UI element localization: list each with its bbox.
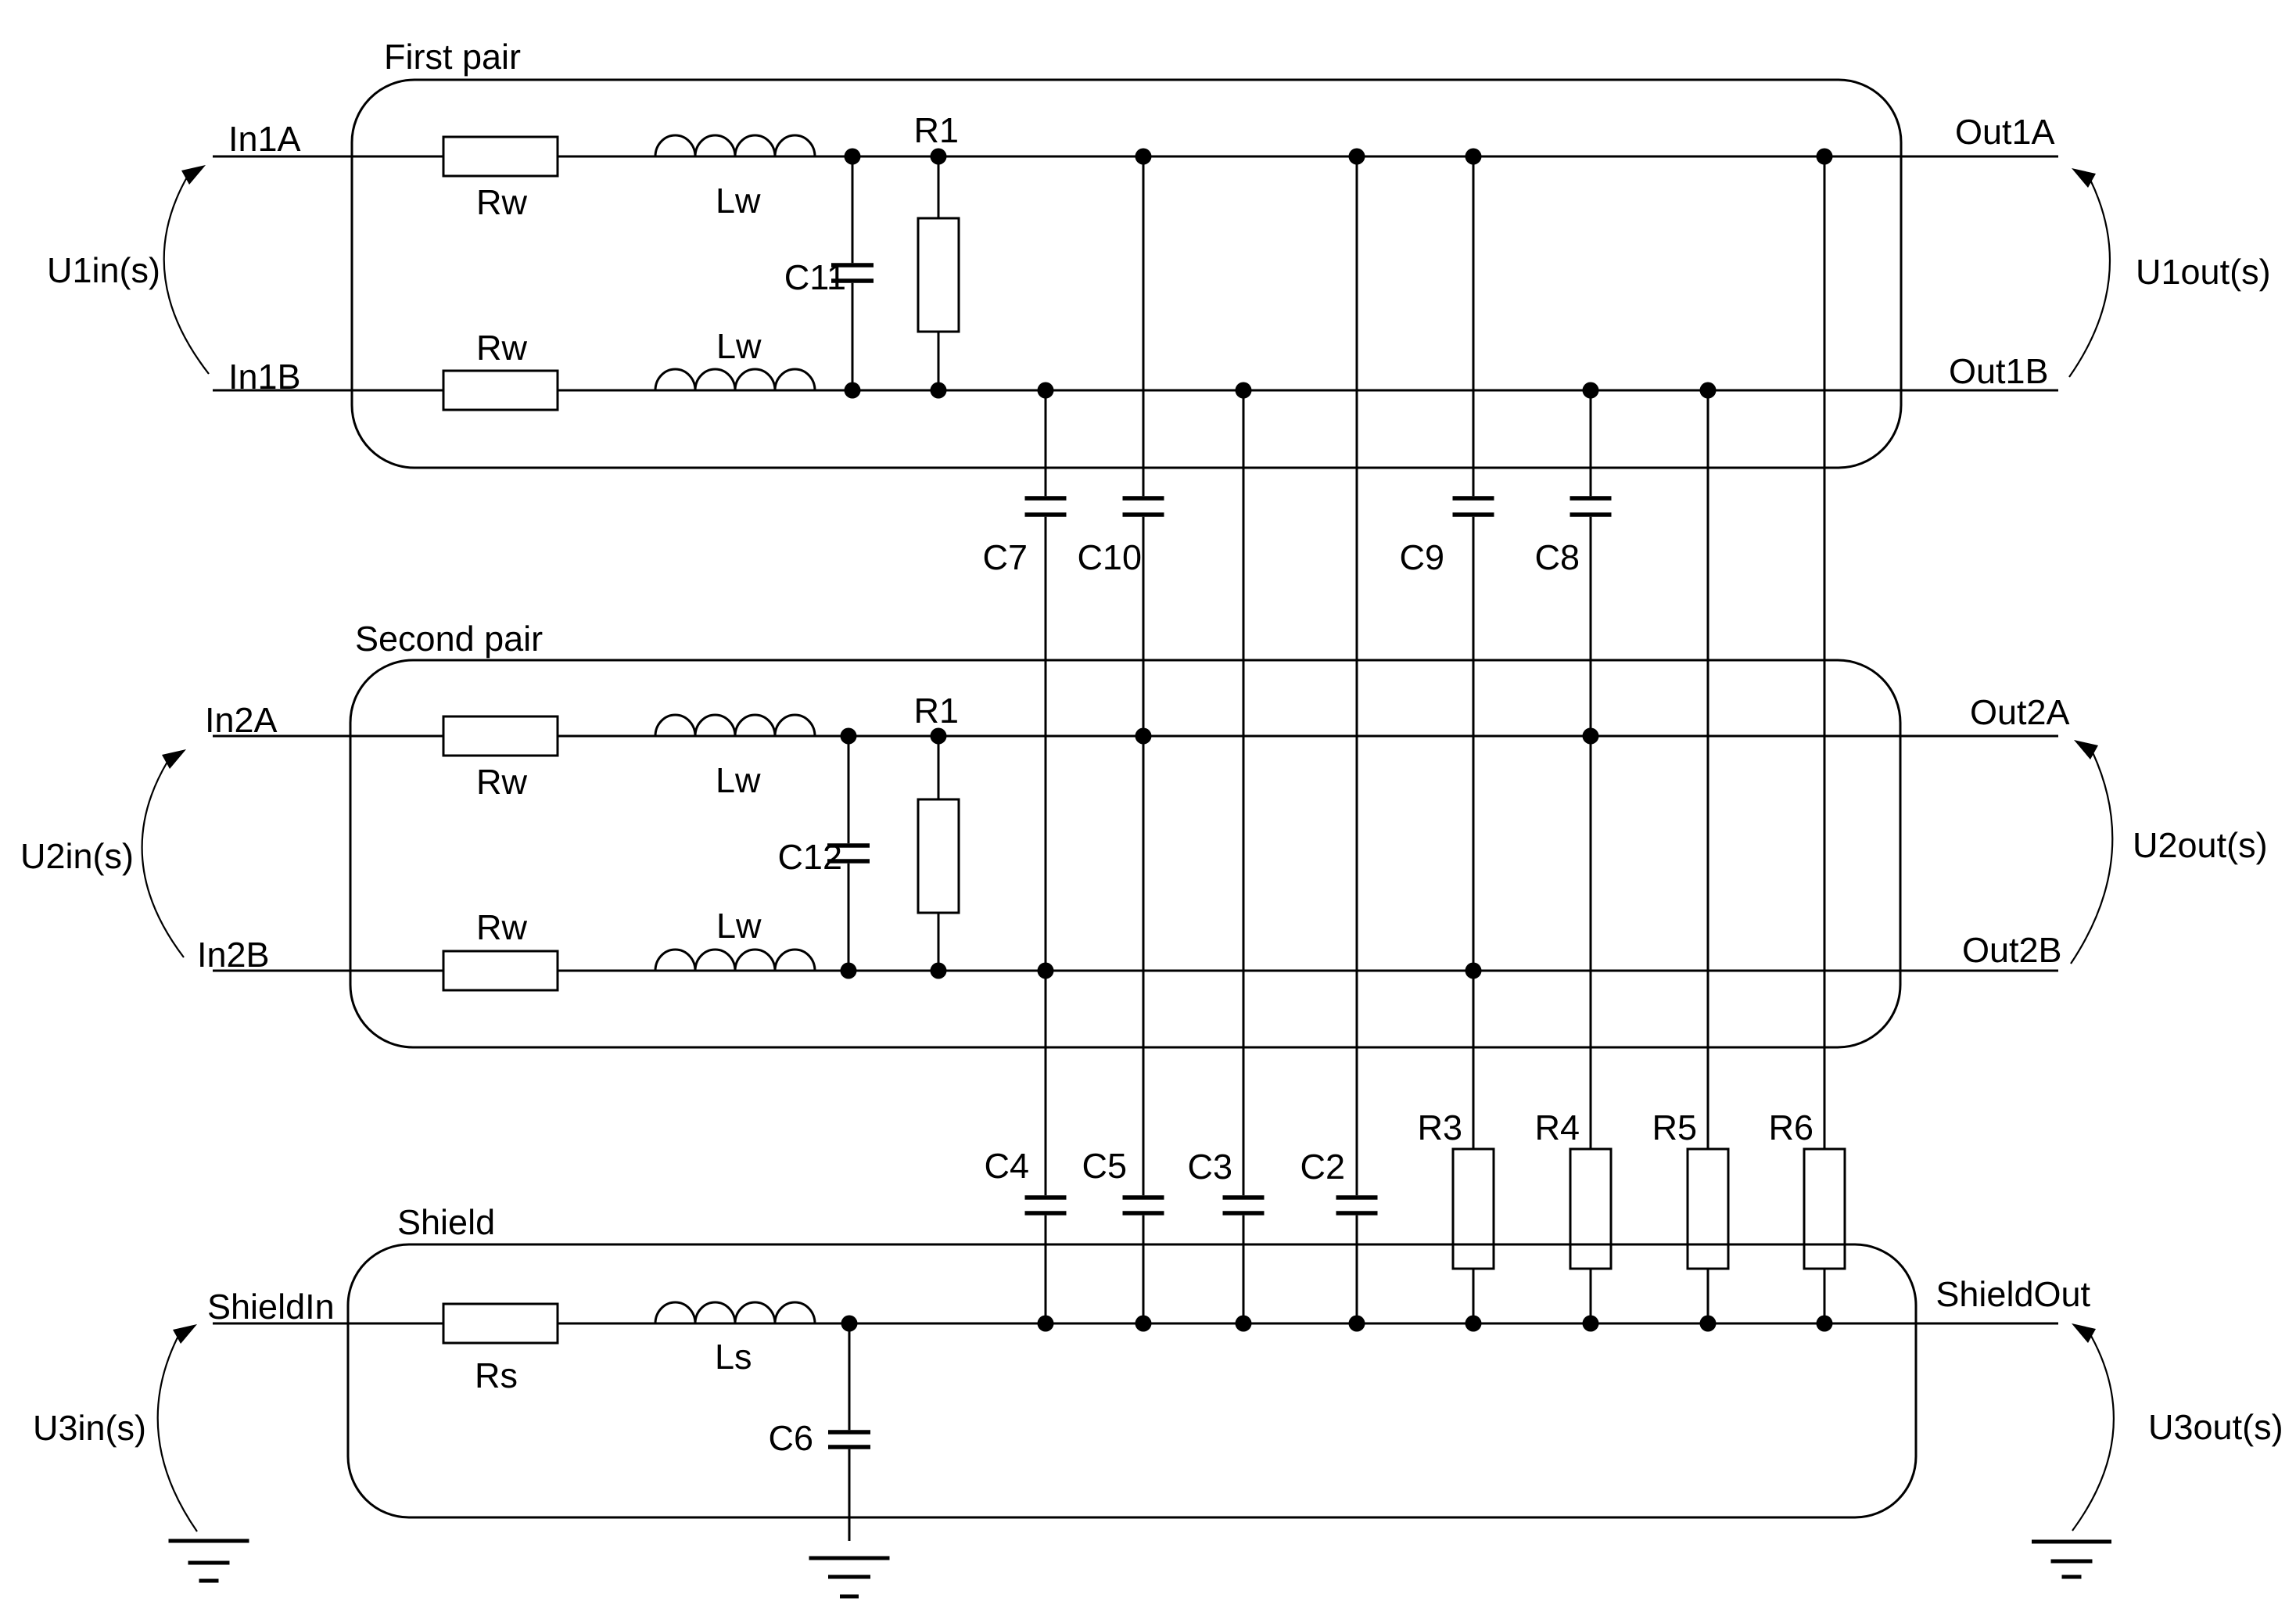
wire C7 to Out2B [1045, 517, 1047, 971]
wire coupling line x=2034 upper segment [1590, 390, 1592, 496]
junction node on shield wire at x=1462 [1135, 1316, 1152, 1332]
resistor R1 (second pair) [913, 691, 959, 971]
junction node on Out1A wire at x=1090 [845, 149, 861, 165]
svg-text:R3: R3 [1417, 1108, 1462, 1147]
voltage arrow U3out(s) [2072, 1323, 2283, 1531]
inductor Lw (wire y=200) [655, 134, 815, 221]
svg-text:C8: C8 [1534, 537, 1580, 577]
svg-text:C10: C10 [1077, 537, 1142, 577]
svg-text:U2out(s): U2out(s) [2133, 825, 2268, 865]
node label In2A [205, 700, 278, 740]
junction node on Out1B wire at x=2184 [1700, 382, 1717, 399]
junction node on Out1B wire at x=2034 [1583, 382, 1599, 399]
ground (right, U3out reference) [2032, 1542, 2111, 1577]
node label Out1B [1949, 351, 2049, 391]
cable box "Second pair" [350, 660, 1900, 1047]
node label Out1A [1955, 112, 2055, 152]
junction node on shield wire at x=1086 [841, 1316, 858, 1332]
capacitor C12 [777, 736, 870, 971]
junction node on shield wire at x=1735 [1349, 1316, 1365, 1332]
svg-text:Lw: Lw [716, 906, 762, 946]
resistor R4 [1534, 1108, 1611, 1269]
junction node on Out2B wire at x=1337 [1038, 963, 1054, 979]
svg-text:Lw: Lw [716, 326, 762, 366]
wire R4 to shield [1590, 1269, 1592, 1323]
capacitor C3 [1187, 1147, 1264, 1213]
label Second pair [355, 619, 543, 659]
wire C3 to shield [1243, 1215, 1245, 1323]
svg-text:C5: C5 [1082, 1146, 1127, 1186]
junction node on shield wire at x=1337 [1038, 1316, 1054, 1332]
junction node on shield wire at x=1884 [1465, 1316, 1482, 1332]
wire coupling line x=2333 [1824, 156, 1826, 1149]
wire ShieldIn-ShieldOut [213, 1323, 2058, 1325]
svg-text:C2: C2 [1300, 1147, 1345, 1187]
wire coupling line x=1337 upper segment [1045, 390, 1047, 496]
junction node on shield wire at x=2034 [1583, 1316, 1599, 1332]
resistor R1 (first pair) [913, 110, 959, 390]
node label In1A [228, 119, 301, 159]
inductor Lw (wire y=1241) [655, 906, 815, 971]
node label Out2B [1962, 930, 2062, 970]
capacitor C4 [984, 1146, 1066, 1213]
capacitor C5 [1082, 1146, 1164, 1213]
wire C5 to shield [1143, 1215, 1145, 1323]
svg-text:In2B: In2B [197, 935, 270, 975]
cable box "First pair" [352, 80, 1901, 468]
node label In2B [197, 935, 270, 975]
svg-text:U3in(s): U3in(s) [33, 1408, 146, 1448]
svg-text:Rw: Rw [476, 182, 527, 222]
svg-text:In1B: In1B [228, 357, 301, 397]
svg-text:R6: R6 [1768, 1108, 1813, 1147]
junction node on Out1B wire at x=1337 [1038, 382, 1054, 399]
svg-text:R5: R5 [1652, 1108, 1697, 1147]
resistor Rw (wire y=941) [443, 716, 558, 802]
svg-text:C12: C12 [777, 837, 842, 877]
resistor R3 [1417, 1108, 1494, 1269]
svg-text:Out2A: Out2A [1970, 692, 2070, 732]
node label ShieldIn [207, 1287, 335, 1327]
wire In2B-Out2B [213, 970, 2058, 972]
ground (C6) [809, 1558, 890, 1596]
svg-text:U3out(s): U3out(s) [2148, 1407, 2283, 1447]
wire C4 to shield [1045, 1215, 1047, 1323]
svg-text:Out1A: Out1A [1955, 112, 2055, 152]
resistor Rw (wire y=499) [443, 328, 558, 410]
voltage arrow U1in(s) [47, 165, 209, 374]
junction node on Out1A wire at x=1884 [1465, 149, 1482, 165]
junction node on Out2B wire at x=1085 [841, 963, 857, 979]
wire C9 to Out2B [1473, 517, 1475, 971]
junction node on shield wire at x=2184 [1700, 1316, 1717, 1332]
voltage arrow U1out(s) [2069, 168, 2271, 377]
svg-text:In2A: In2A [205, 700, 278, 740]
svg-text:C11: C11 [784, 257, 846, 297]
capacitor C11 [784, 156, 874, 390]
wire Out2B to C4 [1045, 971, 1047, 1195]
capacitor C9 [1399, 498, 1494, 577]
inductor Ls (wire y=1692) [655, 1301, 815, 1377]
svg-text:Out1B: Out1B [1949, 351, 2049, 391]
capacitor C10 [1077, 498, 1164, 577]
junction node on Out1B wire at x=1200 [931, 382, 947, 399]
wire coupling line x=2184 [1707, 390, 1709, 1149]
node label Out2A [1970, 692, 2070, 732]
junction node on shield wire at x=1590 [1236, 1316, 1252, 1332]
wire Out2A to R4 [1590, 736, 1592, 1149]
junction node on Out1A wire at x=1735 [1349, 149, 1365, 165]
svg-text:C7: C7 [982, 537, 1028, 577]
svg-text:Ls: Ls [715, 1337, 752, 1377]
svg-text:Out2B: Out2B [1962, 930, 2062, 970]
wire Out2B to R3 [1473, 971, 1475, 1149]
junction node on Out2B wire at x=1200 [931, 963, 947, 979]
resistor Rs (wire y=1692) [443, 1304, 558, 1395]
svg-text:Lw: Lw [716, 760, 761, 800]
voltage arrow U2out(s) [2071, 740, 2268, 964]
svg-text:Shield: Shield [397, 1202, 495, 1242]
wire coupling line x=1462 upper segment [1143, 156, 1145, 496]
junction node on Out1A wire at x=1462 [1135, 149, 1152, 165]
junction node on Out2A wire at x=2034 [1583, 728, 1599, 745]
wire Out2A to C5 [1143, 736, 1145, 1195]
junction node on Out1A wire at x=2333 [1817, 149, 1833, 165]
voltage arrow U3in(s) [33, 1324, 197, 1531]
wire R6 to shield [1824, 1269, 1826, 1323]
svg-text:ShieldOut: ShieldOut [1935, 1274, 2090, 1314]
wire coupling line x=1735 [1356, 156, 1358, 1195]
svg-text:Rw: Rw [476, 762, 527, 802]
capacitor C8 [1534, 498, 1611, 577]
cable box "Shield" [348, 1244, 1916, 1517]
resistor R6 [1768, 1108, 1845, 1269]
wire coupling line x=1884 upper segment [1473, 156, 1475, 496]
svg-text:C4: C4 [984, 1146, 1029, 1186]
svg-text:Rs: Rs [475, 1355, 518, 1395]
node label In1B [228, 357, 301, 397]
wire R5 to shield [1707, 1269, 1709, 1323]
svg-text:Rw: Rw [476, 328, 527, 368]
svg-text:Second pair: Second pair [355, 619, 543, 659]
svg-text:C6: C6 [768, 1418, 813, 1458]
svg-text:R1: R1 [913, 691, 959, 731]
resistor R5 [1652, 1108, 1728, 1269]
junction node on shield wire at x=2333 [1817, 1316, 1833, 1332]
wire In1A-Out1A [213, 156, 2058, 158]
junction node on Out2A wire at x=1200 [931, 728, 947, 745]
capacitor C6 [768, 1323, 870, 1541]
junction node on Out1B wire at x=1590 [1236, 382, 1252, 399]
inductor Lw (wire y=941) [655, 713, 815, 800]
svg-text:U1out(s): U1out(s) [2136, 252, 2271, 292]
resistor Rw (wire y=200) [443, 137, 558, 222]
svg-text:C3: C3 [1187, 1147, 1232, 1187]
junction node on Out2A wire at x=1085 [841, 728, 857, 745]
label First pair [384, 37, 521, 77]
label Shield [397, 1202, 495, 1242]
inductor Lw (wire y=499) [655, 326, 815, 390]
svg-text:U1in(s): U1in(s) [47, 250, 160, 290]
svg-text:In1A: In1A [228, 119, 301, 159]
resistor Rw (wire y=1241) [443, 907, 558, 990]
junction node on Out1A wire at x=1200 [931, 149, 947, 165]
junction node on Out2B wire at x=1884 [1465, 963, 1482, 979]
svg-text:U2in(s): U2in(s) [20, 836, 134, 876]
svg-text:R1: R1 [913, 110, 959, 150]
wire In2A-Out2A [213, 735, 2058, 738]
capacitor C7 [982, 498, 1066, 577]
voltage arrow U2in(s) [20, 749, 186, 957]
ground (left, U3in reference) [169, 1541, 249, 1581]
capacitor C2 [1300, 1147, 1377, 1213]
node label ShieldOut [1935, 1274, 2090, 1314]
junction node on Out1B wire at x=1090 [845, 382, 861, 399]
wire C10 to Out2A [1143, 517, 1145, 736]
wire R3 to shield [1473, 1269, 1475, 1323]
svg-text:First pair: First pair [384, 37, 521, 77]
wire C8 to Out2A [1590, 517, 1592, 736]
svg-text:Rw: Rw [476, 907, 527, 947]
svg-text:ShieldIn: ShieldIn [207, 1287, 335, 1327]
wire In1B-Out1B [213, 390, 2058, 392]
svg-text:R4: R4 [1534, 1108, 1580, 1147]
svg-text:Lw: Lw [716, 181, 761, 221]
wire C2 to shield [1356, 1215, 1358, 1323]
svg-text:C9: C9 [1399, 537, 1444, 577]
junction node on Out2A wire at x=1462 [1135, 728, 1152, 745]
wire coupling line x=1590 [1243, 390, 1245, 1195]
